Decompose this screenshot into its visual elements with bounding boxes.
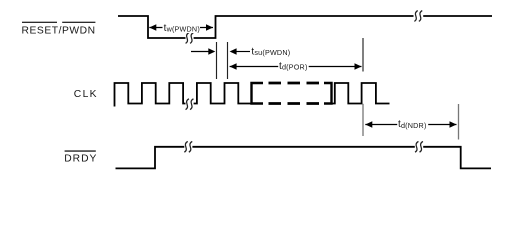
CLK dashed high line [269,82,320,85]
break squiggle on DRDY high right segment [415,141,423,152]
svg-text:td(NDR): td(NDR) [398,119,427,130]
signal label DRDY [64,150,97,164]
waveform DRDY [116,147,492,169]
svg-text:tsu(PWDN): tsu(PWDN) [251,46,290,57]
waveform CLK solid pulses right group [332,83,390,104]
dimension line v3 (CLK rising edge, t_d(POR) end / t_d(NDR) start) [362,38,364,72]
signal label RESET/PWDN [22,22,96,37]
svg-text:tw(PWDN): tw(PWDN) [164,23,200,34]
waveform CLK solid pulses left group [115,83,252,107]
svg-text:td(POR): td(POR) [279,61,308,72]
dimension line v4 (DRDY falling edge) [458,104,460,140]
dimension t_d(NDR): line, arrowheads, label [365,118,456,130]
CLK dashed-region opening bracket [252,83,264,104]
dimension t_su(PWDN): arrows and label [191,46,290,57]
dimension t_w(PWDN): line, arrowheads, label [149,22,213,34]
dimension line v1 (RESET rising edge) [216,42,218,79]
waveform RESET/PWDN [118,16,492,38]
break squiggle on RESET high right segment [414,11,422,22]
break squiggle on RESET low segment [186,33,194,44]
svg-text:CLK: CLK [74,89,98,100]
dimension t_d(POR): line, arrowheads, label [230,61,362,73]
svg-text:DRDY: DRDY [64,154,97,165]
break squiggle on CLK low segment [186,99,194,110]
dimension line v2 (CLK edge for t_su) [227,42,229,79]
break squiggle on DRDY high left segment [184,141,192,152]
CLK dashed-region closing bracket [324,83,332,104]
CLK dashed low line [269,102,320,105]
svg-text:RESET/PWDN: RESET/PWDN [22,26,96,37]
